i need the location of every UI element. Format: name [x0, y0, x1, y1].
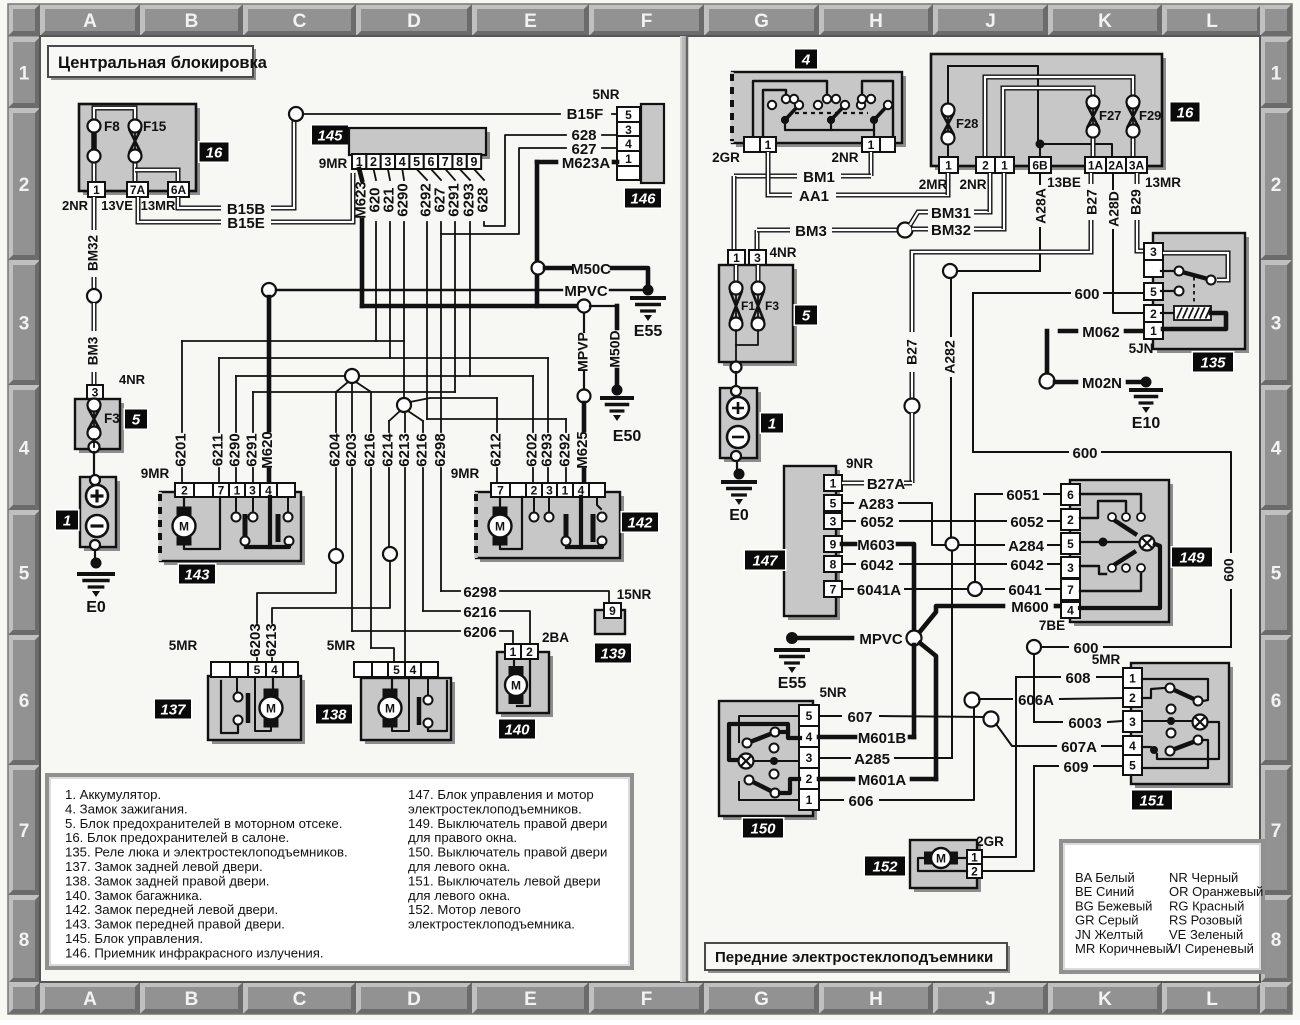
svg-text:E55: E55: [778, 675, 807, 692]
svg-text:6203: 6203: [247, 623, 264, 656]
svg-text:D: D: [407, 11, 421, 32]
svg-text:MR Коричневый: MR Коричневый: [1075, 941, 1173, 956]
svg-text:13MR: 13MR: [141, 198, 176, 213]
svg-text:16. Блок предохранителей в са: 16. Блок предохранителей в салоне.: [65, 830, 289, 845]
svg-text:609: 609: [1063, 759, 1088, 776]
svg-text:2: 2: [982, 158, 989, 172]
svg-text:7: 7: [830, 582, 837, 596]
svg-text:8: 8: [830, 557, 837, 571]
svg-text:B: B: [185, 11, 199, 32]
svg-text:J: J: [985, 11, 996, 32]
svg-text:606: 606: [848, 793, 873, 810]
svg-text:C: C: [293, 11, 307, 32]
svg-text:E55: E55: [634, 323, 663, 340]
svg-text:145: 145: [317, 128, 343, 145]
svg-text:1: 1: [768, 416, 776, 433]
svg-text:1: 1: [830, 476, 837, 490]
svg-text:3: 3: [19, 314, 30, 335]
svg-text:151: 151: [1139, 793, 1164, 810]
svg-text:9MR: 9MR: [141, 466, 170, 481]
svg-text:2: 2: [531, 483, 538, 497]
svg-text:9: 9: [609, 604, 616, 618]
svg-text:M062: M062: [1082, 324, 1120, 341]
svg-text:GR Серый: GR Серый: [1075, 913, 1139, 928]
svg-text:607: 607: [847, 709, 872, 726]
svg-text:2: 2: [1067, 513, 1074, 527]
svg-text:5: 5: [802, 308, 811, 325]
svg-text:AA1: AA1: [799, 188, 829, 205]
svg-text:6216: 6216: [413, 433, 430, 466]
svg-text:600: 600: [1221, 558, 1237, 582]
svg-text:145. Блок управления.: 145. Блок управления.: [65, 931, 203, 946]
svg-text:B27A: B27A: [867, 476, 906, 493]
svg-text:3A: 3A: [1129, 158, 1145, 172]
svg-text:6042: 6042: [1010, 557, 1043, 574]
svg-text:2MR: 2MR: [919, 177, 948, 192]
svg-text:NR Черный: NR Черный: [1169, 870, 1238, 885]
svg-text:6052: 6052: [1010, 514, 1043, 531]
svg-text:K: K: [1098, 11, 1112, 32]
svg-text:3: 3: [384, 155, 391, 169]
svg-text:3: 3: [625, 123, 632, 137]
svg-text:M601B: M601B: [858, 730, 907, 747]
svg-text:6206: 6206: [463, 624, 496, 641]
svg-text:13VE: 13VE: [101, 198, 133, 213]
svg-text:4: 4: [806, 730, 813, 744]
svg-text:1: 1: [63, 513, 71, 530]
svg-text:2: 2: [971, 864, 978, 878]
svg-text:149: 149: [1179, 550, 1205, 567]
svg-text:B27: B27: [1084, 189, 1100, 215]
svg-text:3: 3: [1271, 314, 1282, 335]
svg-text:2: 2: [181, 483, 188, 497]
svg-text:5MR: 5MR: [169, 638, 198, 653]
svg-text:4NR: 4NR: [769, 245, 796, 260]
svg-text:6041: 6041: [1008, 582, 1041, 599]
svg-text:6: 6: [1271, 691, 1282, 712]
svg-text:7BE: 7BE: [1039, 618, 1065, 633]
svg-text:8: 8: [1271, 930, 1282, 951]
svg-text:7: 7: [442, 155, 449, 169]
svg-text:Передние электростеклоподъемни: Передние электростеклоподъемники: [715, 949, 993, 966]
svg-text:139: 139: [600, 646, 626, 663]
svg-text:5: 5: [132, 412, 141, 429]
svg-text:MPVC: MPVC: [859, 631, 903, 648]
svg-text:628: 628: [474, 187, 491, 212]
svg-text:B29: B29: [1128, 189, 1144, 215]
svg-text:VE Зеленый: VE Зеленый: [1169, 927, 1243, 942]
svg-text:2: 2: [19, 175, 30, 196]
svg-text:6: 6: [427, 155, 434, 169]
svg-text:BE Синий: BE Синий: [1075, 884, 1134, 899]
svg-text:L: L: [1206, 989, 1218, 1010]
svg-text:3: 3: [830, 514, 837, 528]
svg-text:8: 8: [19, 930, 30, 951]
svg-text:4: 4: [19, 439, 30, 460]
svg-text:L: L: [1206, 11, 1218, 32]
svg-text:M: M: [385, 702, 395, 716]
svg-text:140. Замок багажника.: 140. Замок багажника.: [65, 888, 202, 903]
svg-text:M: M: [936, 852, 946, 866]
svg-text:4: 4: [625, 137, 632, 151]
svg-text:9: 9: [470, 155, 477, 169]
svg-text:2NR: 2NR: [831, 150, 858, 165]
svg-text:Центральная блокировка: Центральная блокировка: [58, 54, 268, 72]
svg-text:3: 3: [249, 483, 256, 497]
svg-text:6214: 6214: [379, 433, 396, 467]
svg-text:147. Блок управления и мотор: 147. Блок управления и мотор: [408, 787, 594, 802]
svg-text:M: M: [495, 520, 505, 534]
svg-text:4NR: 4NR: [119, 372, 146, 387]
svg-text:6212: 6212: [487, 433, 504, 466]
svg-text:E0: E0: [86, 599, 106, 616]
svg-text:150: 150: [750, 821, 776, 838]
svg-text:600: 600: [1072, 445, 1097, 462]
svg-text:5MR: 5MR: [1092, 652, 1121, 667]
svg-text:F8: F8: [104, 119, 120, 134]
svg-text:6293: 6293: [538, 433, 555, 466]
svg-text:F27: F27: [1099, 108, 1121, 123]
svg-text:138. Замок задней правой двер: 138. Замок задней правой двери.: [65, 873, 269, 888]
svg-text:606A: 606A: [1018, 692, 1054, 709]
svg-text:1: 1: [806, 793, 813, 807]
svg-text:9MR: 9MR: [451, 466, 480, 481]
svg-text:M: M: [179, 520, 189, 534]
svg-text:2: 2: [1271, 175, 1282, 196]
svg-text:5: 5: [1129, 758, 1136, 772]
svg-text:F3: F3: [765, 299, 779, 313]
svg-text:16: 16: [1177, 105, 1194, 122]
svg-text:9: 9: [830, 537, 837, 551]
svg-text:6292: 6292: [556, 433, 573, 466]
svg-text:2BA: 2BA: [542, 630, 569, 645]
svg-text:4: 4: [399, 155, 406, 169]
svg-text:1: 1: [868, 138, 875, 152]
svg-text:A285: A285: [854, 751, 890, 768]
svg-text:OR Оранжевый: OR Оранжевый: [1169, 884, 1263, 899]
svg-text:A28D: A28D: [1106, 191, 1122, 227]
svg-text:BM3: BM3: [795, 223, 827, 240]
svg-text:7: 7: [218, 483, 225, 497]
svg-text:E10: E10: [1132, 415, 1161, 432]
svg-text:3: 3: [754, 251, 761, 265]
svg-text:6A: 6A: [171, 183, 187, 197]
svg-text:142: 142: [627, 515, 653, 532]
svg-text:1: 1: [625, 152, 632, 166]
svg-text:A282: A282: [942, 340, 958, 374]
svg-text:F3: F3: [104, 411, 120, 426]
svg-text:G: G: [754, 11, 769, 32]
svg-text:5: 5: [254, 663, 261, 677]
svg-text:146: 146: [630, 191, 656, 208]
svg-text:5: 5: [393, 663, 400, 677]
svg-text:9MR: 9MR: [319, 156, 348, 171]
svg-text:1: 1: [510, 645, 517, 659]
svg-text:5: 5: [1271, 564, 1282, 585]
svg-text:5NR: 5NR: [592, 87, 619, 102]
svg-text:6298: 6298: [432, 433, 449, 466]
svg-text:1: 1: [945, 158, 952, 172]
svg-text:151. Выключатель левой двери: 151. Выключатель левой двери: [408, 873, 601, 888]
svg-text:135. Реле люка и электростекл: 135. Реле люка и электростеклоподъемнико…: [65, 845, 348, 860]
svg-text:H: H: [869, 989, 883, 1010]
svg-text:2NR: 2NR: [959, 177, 986, 192]
svg-text:13BE: 13BE: [1047, 175, 1081, 190]
svg-text:2: 2: [370, 155, 377, 169]
svg-text:6290: 6290: [226, 433, 243, 466]
svg-text:146. Приемник инфракрасного и: 146. Приемник инфракрасного излучения.: [65, 945, 324, 960]
svg-text:BG Бежевый: BG Бежевый: [1075, 898, 1152, 913]
svg-text:BM31: BM31: [931, 205, 971, 222]
svg-text:15NR: 15NR: [617, 587, 652, 602]
svg-text:6298: 6298: [463, 584, 496, 601]
svg-text:5: 5: [625, 108, 632, 122]
svg-text:M625: M625: [574, 431, 591, 469]
svg-text:1: 1: [971, 850, 978, 864]
svg-text:A284: A284: [1008, 538, 1045, 555]
svg-text:2NR: 2NR: [62, 198, 89, 213]
svg-text:5: 5: [806, 709, 813, 723]
svg-text:3: 3: [546, 483, 553, 497]
svg-text:JN Желтый: JN Желтый: [1075, 927, 1143, 942]
svg-text:BM1: BM1: [803, 169, 835, 186]
svg-text:3: 3: [92, 385, 99, 399]
svg-text:M603: M603: [857, 537, 895, 554]
svg-text:150. Выключатель правой двери: 150. Выключатель правой двери: [408, 845, 607, 860]
svg-text:1: 1: [234, 483, 241, 497]
svg-text:1: 1: [1150, 324, 1157, 338]
svg-text:6216: 6216: [361, 433, 378, 466]
svg-text:5: 5: [1150, 285, 1157, 299]
svg-text:MPVP: MPVP: [575, 332, 591, 372]
svg-text:3: 3: [806, 751, 813, 765]
svg-text:A: A: [83, 11, 97, 32]
svg-text:600: 600: [1074, 286, 1099, 303]
svg-text:1: 1: [1001, 158, 1008, 172]
svg-text:6041A: 6041A: [857, 582, 901, 599]
svg-text:6B: 6B: [1032, 158, 1048, 172]
svg-text:142. Замок передней левой две: 142. Замок передней левой двери.: [65, 902, 278, 917]
svg-text:1: 1: [562, 483, 569, 497]
svg-text:3: 3: [1129, 715, 1136, 729]
svg-text:4: 4: [410, 663, 417, 677]
svg-text:BM32: BM32: [931, 222, 971, 239]
svg-text:6291: 6291: [243, 433, 260, 466]
svg-text:608: 608: [1065, 670, 1090, 687]
svg-text:M50D: M50D: [607, 330, 623, 367]
svg-text:6203: 6203: [343, 433, 360, 466]
svg-text:7A: 7A: [130, 183, 146, 197]
svg-text:1: 1: [765, 138, 772, 152]
svg-text:F: F: [641, 11, 653, 32]
svg-text:RG Красный: RG Красный: [1169, 898, 1244, 913]
svg-text:F: F: [641, 989, 653, 1010]
svg-text:1A: 1A: [1088, 158, 1104, 172]
svg-text:7: 7: [19, 821, 30, 842]
svg-text:6201: 6201: [172, 433, 189, 466]
svg-text:B15F: B15F: [567, 106, 604, 123]
svg-text:147: 147: [752, 553, 778, 570]
svg-text:9NR: 9NR: [846, 456, 873, 471]
svg-text:4: 4: [801, 52, 811, 69]
svg-text:C: C: [293, 989, 307, 1010]
svg-text:F29: F29: [1139, 108, 1161, 123]
svg-text:E: E: [524, 989, 537, 1010]
svg-text:7: 7: [1067, 583, 1074, 597]
svg-text:6211: 6211: [209, 434, 226, 467]
svg-text:1: 1: [733, 251, 740, 265]
svg-text:6204: 6204: [326, 433, 343, 467]
svg-text:A28A: A28A: [1033, 188, 1049, 224]
svg-text:3: 3: [1067, 561, 1074, 575]
svg-text:4: 4: [271, 663, 278, 677]
svg-text:1: 1: [1129, 671, 1136, 685]
svg-text:6: 6: [19, 691, 30, 712]
svg-text:2A: 2A: [1108, 158, 1124, 172]
svg-text:4: 4: [1271, 439, 1282, 460]
svg-text:электростеклоподъемника.: электростеклоподъемника.: [408, 917, 575, 932]
svg-text:MPVC: MPVC: [564, 283, 608, 300]
svg-text:D: D: [407, 989, 421, 1010]
svg-text:B15E: B15E: [227, 215, 265, 232]
svg-text:5: 5: [413, 155, 420, 169]
svg-text:5NR: 5NR: [819, 685, 846, 700]
svg-text:G: G: [754, 989, 769, 1010]
svg-text:7: 7: [1271, 821, 1282, 842]
svg-text:6213: 6213: [263, 623, 280, 656]
svg-text:E50: E50: [613, 428, 642, 445]
svg-text:2: 2: [526, 645, 533, 659]
svg-text:F28: F28: [956, 116, 978, 131]
svg-text:6052: 6052: [860, 514, 893, 531]
svg-text:M620: M620: [259, 431, 276, 469]
svg-text:13MR: 13MR: [1145, 175, 1181, 190]
svg-text:1: 1: [93, 183, 100, 197]
svg-text:F15: F15: [143, 119, 167, 134]
svg-text:4. Замок зажигания.: 4. Замок зажигания.: [65, 801, 188, 816]
svg-text:для правого окна.: для правого окна.: [408, 830, 517, 845]
svg-text:6: 6: [1067, 488, 1074, 502]
svg-text:6051: 6051: [1006, 487, 1039, 504]
svg-text:M02N: M02N: [1082, 375, 1122, 392]
svg-text:A283: A283: [858, 496, 894, 513]
svg-text:B: B: [185, 989, 199, 1010]
svg-text:16: 16: [206, 145, 223, 162]
svg-text:143: 143: [184, 567, 210, 584]
svg-text:1. Аккумулятор.: 1. Аккумулятор.: [65, 787, 161, 802]
svg-text:K: K: [1098, 989, 1112, 1010]
svg-text:149. Выключатель правой двери: 149. Выключатель правой двери: [408, 816, 607, 831]
svg-text:5: 5: [1067, 537, 1074, 551]
svg-text:M: M: [511, 679, 521, 693]
svg-text:7: 7: [497, 483, 504, 497]
svg-text:VI Сиреневый: VI Сиреневый: [1169, 941, 1254, 956]
svg-text:8: 8: [456, 155, 463, 169]
svg-text:6213: 6213: [396, 433, 413, 466]
svg-text:1: 1: [1271, 64, 1282, 85]
svg-text:140: 140: [504, 722, 530, 739]
svg-text:BM32: BM32: [86, 235, 101, 271]
svg-text:6003: 6003: [1068, 715, 1101, 732]
svg-text:6202: 6202: [523, 433, 540, 466]
svg-text:152. Мотор левого: 152. Мотор левого: [408, 902, 521, 917]
svg-text:M601A: M601A: [858, 772, 907, 789]
svg-text:M600: M600: [1011, 599, 1049, 616]
svg-text:5JN: 5JN: [1129, 341, 1154, 356]
svg-text:143. Замок передней правой дв: 143. Замок передней правой двери.: [65, 917, 285, 932]
svg-text:2: 2: [1150, 307, 1157, 321]
svg-text:4: 4: [1129, 739, 1136, 753]
svg-text:1: 1: [19, 64, 30, 85]
svg-text:M50C: M50C: [571, 261, 611, 278]
svg-text:607A: 607A: [1061, 739, 1097, 756]
svg-text:для левого окна.: для левого окна.: [408, 888, 510, 903]
svg-text:138: 138: [321, 707, 347, 724]
svg-text:BM3: BM3: [86, 336, 101, 365]
svg-text:E: E: [524, 11, 537, 32]
svg-text:137: 137: [160, 702, 186, 719]
svg-text:B27: B27: [904, 339, 920, 365]
svg-text:для левого окна.: для левого окна.: [408, 859, 510, 874]
svg-text:A: A: [83, 989, 97, 1010]
svg-text:135: 135: [1200, 355, 1226, 372]
svg-text:E0: E0: [729, 507, 749, 524]
svg-text:M: M: [266, 702, 276, 716]
svg-text:5: 5: [830, 496, 837, 510]
svg-text:6042: 6042: [860, 557, 893, 574]
svg-text:3: 3: [1150, 245, 1157, 259]
svg-text:2GR: 2GR: [712, 150, 740, 165]
svg-text:5: 5: [19, 564, 30, 585]
svg-text:RS Розовый: RS Розовый: [1169, 913, 1242, 928]
svg-text:137. Замок задней левой двери: 137. Замок задней левой двери.: [65, 859, 263, 874]
svg-text:BA Белый: BA Белый: [1075, 870, 1135, 885]
svg-text:4: 4: [1067, 603, 1074, 617]
svg-text:J: J: [985, 989, 996, 1010]
svg-text:5MR: 5MR: [327, 638, 356, 653]
svg-text:M623A: M623A: [562, 155, 611, 172]
svg-text:152: 152: [872, 859, 898, 876]
svg-text:H: H: [869, 11, 883, 32]
svg-text:электростеклоподъемников.: электростеклоподъемников.: [408, 801, 582, 816]
svg-text:6216: 6216: [463, 604, 496, 621]
svg-text:6290: 6290: [394, 183, 411, 216]
svg-text:2GR: 2GR: [976, 834, 1004, 849]
svg-text:2: 2: [1129, 691, 1136, 705]
svg-text:2: 2: [806, 772, 813, 786]
svg-text:5. Блок предохранителей в мот: 5. Блок предохранителей в моторном отсек…: [65, 816, 342, 831]
svg-text:F1: F1: [741, 299, 755, 313]
